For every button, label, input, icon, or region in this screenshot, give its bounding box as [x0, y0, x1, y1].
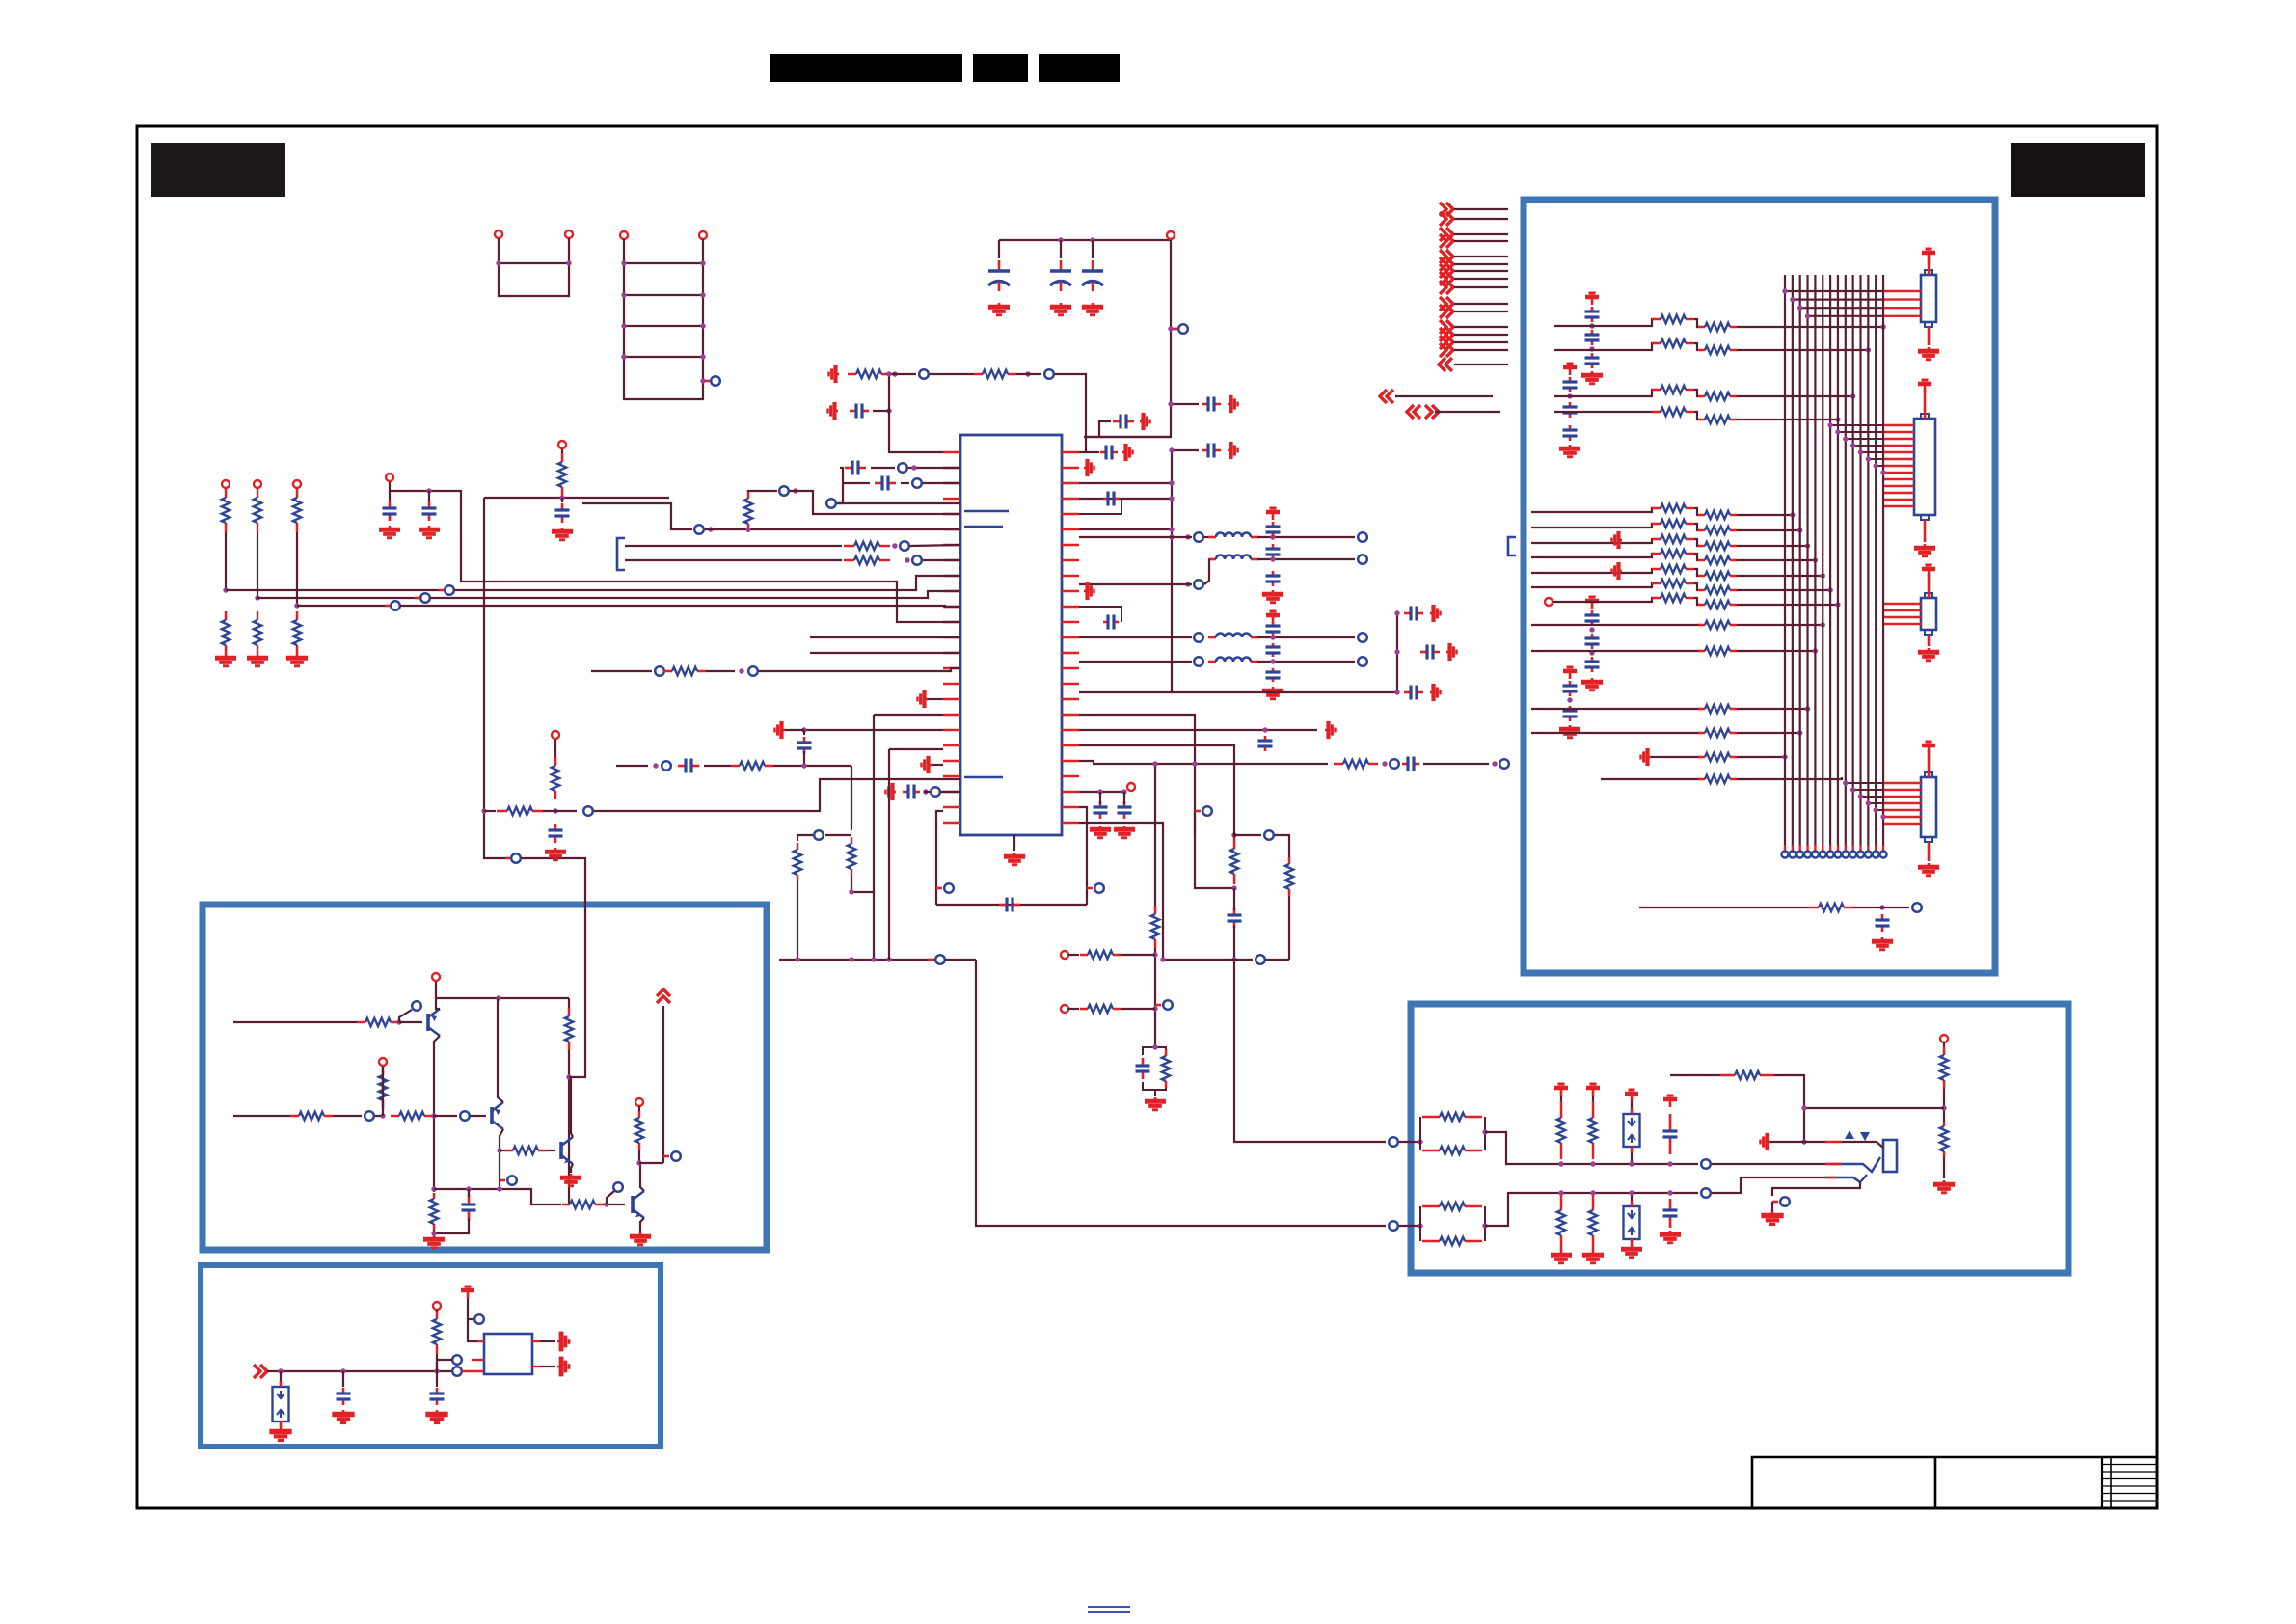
y995 node: [935, 955, 945, 964]
row696 node b: [748, 666, 758, 676]
B2 res pin: [433, 1302, 441, 1310]
B4 zener1 junction: [1629, 1161, 1634, 1166]
CN4 power: [1922, 742, 1935, 753]
B4 zener1: [1624, 1108, 1640, 1152]
jack sleeve wire: [1842, 1142, 1883, 1148]
row792 out node: [1499, 759, 1509, 769]
x1215 junction b2: [1169, 447, 1174, 452]
B3 low2 row1 junction: [1805, 706, 1810, 711]
row388 wire c: [1016, 373, 1041, 375]
redacted title bar 2: [973, 54, 1028, 82]
B3 row3 in: [1554, 390, 1655, 396]
row660 wire c: [1257, 636, 1355, 638]
r469 cap: [1100, 446, 1118, 460]
B2 node c: [452, 1367, 462, 1376]
jack stub red 1: [1825, 1141, 1842, 1144]
B3 mid row6 resistor a: [1652, 580, 1694, 587]
row660 wire a: [1079, 636, 1192, 638]
row794 junction: [653, 763, 658, 768]
B3 low row2 in: [1531, 650, 1701, 652]
row686 inductor: [1208, 658, 1258, 663]
transistor Q3: [561, 1137, 573, 1164]
B3 row2 resistor a: [1652, 339, 1694, 347]
r819 wire: [1079, 791, 1126, 793]
B2 node b: [452, 1355, 462, 1365]
B2 cap2 drop: [436, 1371, 438, 1387]
x1238 node: [1202, 806, 1212, 816]
trio power c: [1430, 684, 1441, 701]
row841 cap: [549, 824, 563, 843]
B3 mid row4 resistor b: [1698, 556, 1737, 564]
r757 cap: [1258, 736, 1273, 751]
divider resistor bottom 1: [222, 611, 230, 654]
B4 zener2 link: [1631, 1193, 1633, 1201]
B4 zener1 power: [1625, 1090, 1638, 1101]
CN1 gnd wire: [1928, 327, 1931, 345]
B4 loop1 junction out: [1482, 1129, 1487, 1134]
transistor Q4: [633, 1191, 644, 1218]
IC U1 pin-group separator c: [964, 776, 1003, 779]
B4 out wire 2: [1712, 1177, 1825, 1193]
B1 Q2 junction: [497, 1148, 501, 1152]
r718 wire: [1079, 691, 1172, 693]
B1 Q2 collector up: [498, 998, 503, 1102]
x1215 junction a2: [1168, 401, 1173, 406]
cap row2 node: [912, 478, 922, 488]
B3 mid power a: [1612, 531, 1623, 549]
l805 junction: [923, 789, 928, 794]
row566 cont: [910, 545, 960, 546]
B1 Q3 emitter: [571, 1164, 573, 1173]
B4 loop1 junction in: [1418, 1139, 1422, 1144]
B2 zener gnd: [269, 1427, 291, 1441]
CN2 power: [1918, 380, 1931, 392]
B4 col1 link up: [1560, 1096, 1562, 1101]
node522 wire to IC: [837, 502, 960, 504]
y995 right node: [1256, 955, 1265, 964]
B4 loop2 body: [1419, 1206, 1421, 1241]
B1 rail drop x590: [568, 998, 570, 1008]
B3 bottom junction: [1879, 905, 1884, 909]
B3 low row2 junction: [1813, 648, 1818, 653]
cap C3 drop wire: [1092, 240, 1094, 258]
title block revision rows: [2102, 1465, 2157, 1502]
row388 junction b: [1025, 371, 1030, 376]
B4 col1 junction b: [1558, 1190, 1563, 1195]
B3 mid row7 resistor b: [1698, 601, 1737, 609]
bus line 2: [257, 597, 415, 599]
row388 power: [829, 365, 840, 383]
trio cap b: [1420, 645, 1440, 660]
B1 x590 link: [568, 1050, 570, 1204]
B1 base wire 1: [399, 1021, 422, 1023]
B4 zener1 link: [1631, 1101, 1633, 1108]
l805 cont: [940, 791, 960, 793]
B3 mid row7 resistor a: [1652, 594, 1694, 602]
B1 Q2 emitter down: [500, 1129, 503, 1189]
jack body: [1883, 1140, 1897, 1172]
x1198 resistor: [1151, 906, 1159, 948]
B4 loop1 out: [1485, 1132, 1698, 1164]
cap row1 cont: [908, 467, 960, 469]
row557 junction b: [1270, 534, 1275, 539]
B4 out wire 1: [1712, 1163, 1825, 1165]
B1 Q1 pin: [432, 973, 440, 981]
redacted title bar 1: [770, 54, 962, 82]
r741 wire: [1079, 715, 1195, 835]
B1 top rail: [436, 997, 569, 999]
cap row2 cont: [923, 482, 960, 484]
vert resistor x776: [744, 490, 752, 532]
x883 resistor: [848, 837, 855, 876]
B3 low2 row1 resistor: [1698, 705, 1737, 713]
title block divider 2: [2101, 1457, 2103, 1508]
chain1320 cap b: [1266, 544, 1281, 559]
x1198 upper link: [1154, 764, 1156, 897]
B3 mid row1 resistor b: [1698, 511, 1737, 519]
bus line 2 cont: [430, 591, 960, 598]
B2 junction c: [434, 1368, 439, 1373]
row866: [825, 834, 851, 836]
r517 wire: [1079, 498, 1172, 500]
row686 node: [1194, 657, 1203, 666]
IC U1 pin stubs: [943, 452, 1079, 823]
B1 right node: [671, 1151, 681, 1161]
title block divider 1: [1934, 1457, 1937, 1508]
jumper J1 junction a: [496, 260, 500, 265]
node x502 stub: [505, 857, 511, 860]
B4 gnd low: [1761, 1211, 1783, 1225]
y995 junction e: [1160, 957, 1165, 961]
bias resistor: [558, 453, 566, 496]
row794 wire: [616, 765, 648, 767]
B3 row3 mid: [1694, 390, 1700, 396]
B3 capcol3 cap b: [1585, 634, 1600, 649]
x906 vertical: [873, 715, 875, 960]
chain y551: [705, 528, 960, 530]
row660 node: [1194, 633, 1203, 642]
chain junction: [708, 527, 713, 531]
B3 row2 junction: [1866, 347, 1871, 352]
row388 resistor 1: [848, 370, 890, 378]
B2 zener drop: [280, 1371, 282, 1384]
y792 wire: [791, 765, 851, 767]
row660 inductor: [1208, 634, 1258, 638]
B1 Q4 emitter: [640, 1218, 644, 1232]
wire x502 down: [484, 498, 505, 858]
B3 mid row2 out: [1737, 529, 1800, 531]
x1215 cap b wire: [1172, 449, 1199, 451]
B4 loop2 junction in: [1418, 1223, 1422, 1228]
row686 wire c: [1257, 661, 1355, 663]
cap row1 wire: [871, 467, 895, 469]
B3 low2 row2 out: [1737, 732, 1800, 734]
B1 in2 wire d: [433, 1115, 457, 1117]
sub-circuit box bottom-right (audio jack): [1411, 1004, 2068, 1273]
CN2 gnd: [1914, 544, 1935, 556]
B1 base row Q3: [500, 1150, 505, 1151]
trio power b: [1446, 643, 1457, 661]
row794 resistor: [731, 762, 773, 770]
B1 node x518 stub: [500, 1179, 505, 1182]
ground below C2: [1050, 303, 1071, 315]
B3 capcol1 cap b: [1585, 330, 1600, 345]
row580 inductor: [1208, 555, 1258, 560]
r757 power: [1325, 721, 1336, 739]
x883 junction: [849, 889, 853, 894]
loop bottom: [936, 904, 1087, 906]
row819 cap b: [1118, 801, 1132, 819]
B3 mid row2 resistor a: [1652, 520, 1694, 528]
B3 row4 out: [1737, 419, 1838, 420]
row794 cont: [704, 765, 731, 767]
bias cap drop: [561, 498, 563, 502]
B3 row4 in: [1554, 411, 1655, 413]
cap A drop: [389, 491, 391, 501]
cap rows left link: [837, 468, 843, 503]
row388 wire a: [890, 373, 916, 375]
B3 low row2 resistor: [1698, 647, 1737, 655]
net arrow bidir wire: [1435, 411, 1500, 413]
trio cap a: [1404, 607, 1423, 621]
row581 node: [912, 555, 922, 565]
row990 cont: [1121, 954, 1155, 956]
x1215 power b: [1228, 442, 1238, 459]
net chevron in: [1439, 358, 1452, 371]
cap row1 junction: [911, 465, 916, 470]
B1 res x450: [430, 1193, 438, 1230]
CN4 power stub: [1928, 751, 1931, 777]
net arrow left wire: [1395, 395, 1493, 397]
B4 loop2 res top: [1422, 1203, 1482, 1210]
ground below C3: [1082, 303, 1103, 315]
B4 zener1 link b: [1631, 1152, 1633, 1164]
title block outline: [1752, 1457, 2157, 1508]
B3 pwr row power: [1641, 748, 1652, 766]
divider wire 2: [257, 532, 258, 598]
x776 junction: [793, 488, 797, 493]
row841 resistor: [497, 807, 543, 815]
B3 mid row6 junction: [1827, 587, 1832, 592]
x1280 resistor: [1230, 838, 1238, 884]
B2 out wire 1: [540, 1340, 555, 1342]
r517 cap loop: [1079, 499, 1121, 514]
redacted title bar 3: [1039, 54, 1120, 82]
jumper J1 loop: [499, 238, 569, 296]
ladder tap stub: [703, 380, 711, 383]
B1 in2 node b: [460, 1111, 470, 1121]
net chevron wires: [1454, 209, 1508, 350]
B3 capcol3 cap a: [1585, 610, 1600, 626]
node x502: [511, 853, 521, 863]
l741 wire: [874, 714, 943, 716]
r837L wire: [936, 811, 943, 905]
bias pin: [558, 441, 566, 448]
row566 resistor: [844, 542, 890, 550]
r469 wire: [1079, 451, 1099, 453]
B4 junction mid: [1801, 1105, 1806, 1110]
l805 node: [931, 787, 940, 797]
B1 node above Q1: [412, 1001, 421, 1011]
cap row2 wire: [901, 482, 909, 484]
B3 low2 row1 out: [1737, 708, 1808, 710]
wire y718: [1172, 691, 1397, 693]
B3 mid row6 out: [1737, 589, 1830, 591]
B4 y1115 wire b: [1774, 1075, 1804, 1142]
B1 cap top link: [468, 1189, 470, 1197]
l805 wire: [924, 791, 930, 793]
B1 node x518: [507, 1176, 517, 1185]
row696 cont b: [759, 668, 960, 671]
B1 in2 wire e: [471, 1115, 486, 1117]
B3 row1 in: [1554, 319, 1655, 326]
r773 wire: [1079, 745, 1234, 811]
B3 row3 out: [1737, 395, 1853, 397]
B1 cap x486: [462, 1194, 476, 1221]
B1 base row Q3 b: [546, 1150, 555, 1151]
B3 bottom resistor: [1809, 904, 1853, 911]
B3 mid row7 junction: [1835, 602, 1840, 607]
cap pair pin: [386, 474, 393, 481]
y995 mid link: [1163, 959, 1234, 961]
B4 node low stub: [1772, 1201, 1778, 1204]
divider resistor top 2: [254, 488, 261, 532]
bus line 1 cont: [454, 576, 960, 590]
row990 resistor: [1080, 951, 1121, 959]
B3 mid row3 junction: [1805, 543, 1810, 548]
y995 link right: [1234, 959, 1253, 961]
B3 mid row7 out: [1737, 604, 1838, 606]
B1 input wire 2: [233, 1115, 290, 1117]
B4 cap1: [1663, 1114, 1678, 1154]
B3 capcol2 gnd: [1559, 445, 1580, 457]
r501 wire: [1079, 482, 1172, 484]
B2 res down: [436, 1354, 438, 1371]
B1 low node: [613, 1182, 623, 1192]
cap row2 left link: [843, 482, 870, 484]
B1 res in2: [290, 1112, 333, 1120]
B3 mid row5 out: [1737, 575, 1823, 577]
bias junction: [559, 495, 564, 500]
B2 IC pin stubs: [472, 1359, 484, 1361]
B1 res right: [635, 1111, 643, 1150]
row566 node: [900, 541, 909, 551]
B4 col2 link up: [1592, 1096, 1594, 1101]
row792 junction b: [1492, 761, 1497, 766]
B3 capcol1 junctions: [1589, 323, 1594, 328]
divider pin 3: [293, 480, 301, 488]
bias drop: [561, 449, 563, 453]
B3 mid row2 in: [1531, 524, 1655, 528]
r469 power: [1122, 444, 1133, 461]
row792 junction: [1382, 761, 1387, 766]
x827 resistor: [794, 843, 801, 881]
row388 node a: [919, 369, 929, 379]
B3 mid row1 out: [1737, 514, 1793, 516]
capacitor CB: [422, 501, 437, 521]
row792 wire b: [1423, 763, 1489, 765]
x883 vertical: [851, 766, 852, 830]
row557 out node: [1358, 532, 1367, 542]
jumper J1 pin B: [565, 230, 573, 238]
row696 wire: [591, 670, 652, 672]
divider ground 2: [247, 654, 268, 666]
B1 x606 entry: [569, 905, 585, 1077]
B3 mid row5 resistor b: [1698, 572, 1737, 580]
row696 node: [655, 666, 664, 676]
row1046 cont: [1121, 1008, 1155, 1010]
B3 mid row2 resistor b: [1698, 527, 1737, 534]
x922 junction: [886, 371, 891, 376]
cap C1 drop wire: [998, 240, 1000, 258]
r851 wire: [1079, 823, 1163, 960]
B2 cap drop: [342, 1371, 344, 1387]
row819 cap a: [1094, 801, 1108, 819]
B3 capcol1 power: [1585, 293, 1599, 305]
B1 chev wire: [662, 1006, 664, 1163]
x1198 node: [1163, 1000, 1173, 1010]
row696 cont: [706, 670, 735, 672]
B2 node b wire: [437, 1360, 452, 1371]
collector y995: [779, 959, 976, 961]
transistor Q1: [428, 1009, 440, 1036]
x1337 bottom: [1288, 896, 1290, 960]
cap row1 node: [898, 463, 907, 473]
rail junction a: [1058, 237, 1063, 242]
IC U1 pin-group separator b: [964, 526, 1003, 528]
chain1320 gnd: [1262, 590, 1283, 603]
B1 Q1 emitter up: [436, 982, 440, 1009]
row428 cap: [850, 404, 869, 419]
B3 capcol2 junction: [1567, 393, 1572, 398]
net chevron in wire: [1454, 364, 1508, 365]
ground row841: [545, 848, 566, 860]
row990 wire: [1068, 954, 1079, 956]
B3 row2 in: [1554, 343, 1655, 350]
x922 long vertical: [888, 749, 890, 960]
B3 mid row3 out: [1737, 545, 1808, 547]
net arrow bidir: [1407, 405, 1420, 419]
x1238 node stub: [1195, 810, 1201, 813]
x827 bottom: [797, 881, 798, 960]
B3 capcol4 cap a: [1563, 681, 1578, 696]
row388 resistor 2: [974, 370, 1016, 378]
power mark at IC top: [1140, 413, 1150, 430]
loop node L: [944, 883, 954, 893]
x1198 junction top: [1152, 761, 1157, 766]
loop node L stub: [936, 887, 942, 890]
ground below CB: [419, 526, 440, 538]
B3 mid row1 junction: [1790, 512, 1795, 517]
cap branch wire: [1099, 421, 1111, 437]
B4 cap1 junction: [1667, 1161, 1672, 1166]
B4 loop1 body: [1419, 1117, 1421, 1150]
divider pin 1: [222, 480, 230, 488]
l757 wire: [804, 729, 943, 731]
B4 loop2 out: [1485, 1193, 1698, 1226]
x776 node: [779, 486, 789, 496]
B3 mid row1 in: [1531, 508, 1655, 512]
B3 capcol4 power: [1563, 667, 1577, 679]
B3 mid row7 in: [1553, 598, 1655, 602]
CN2 gnd wire: [1924, 520, 1927, 542]
B4 res top: [1940, 1046, 1948, 1089]
x1280 junction b: [1231, 885, 1236, 890]
B2 out gnd 2: [557, 1357, 569, 1377]
B3 pwr row out: [1737, 756, 1785, 758]
row428 power: [828, 402, 839, 420]
B3 mid row3 resistor a: [1652, 535, 1694, 543]
